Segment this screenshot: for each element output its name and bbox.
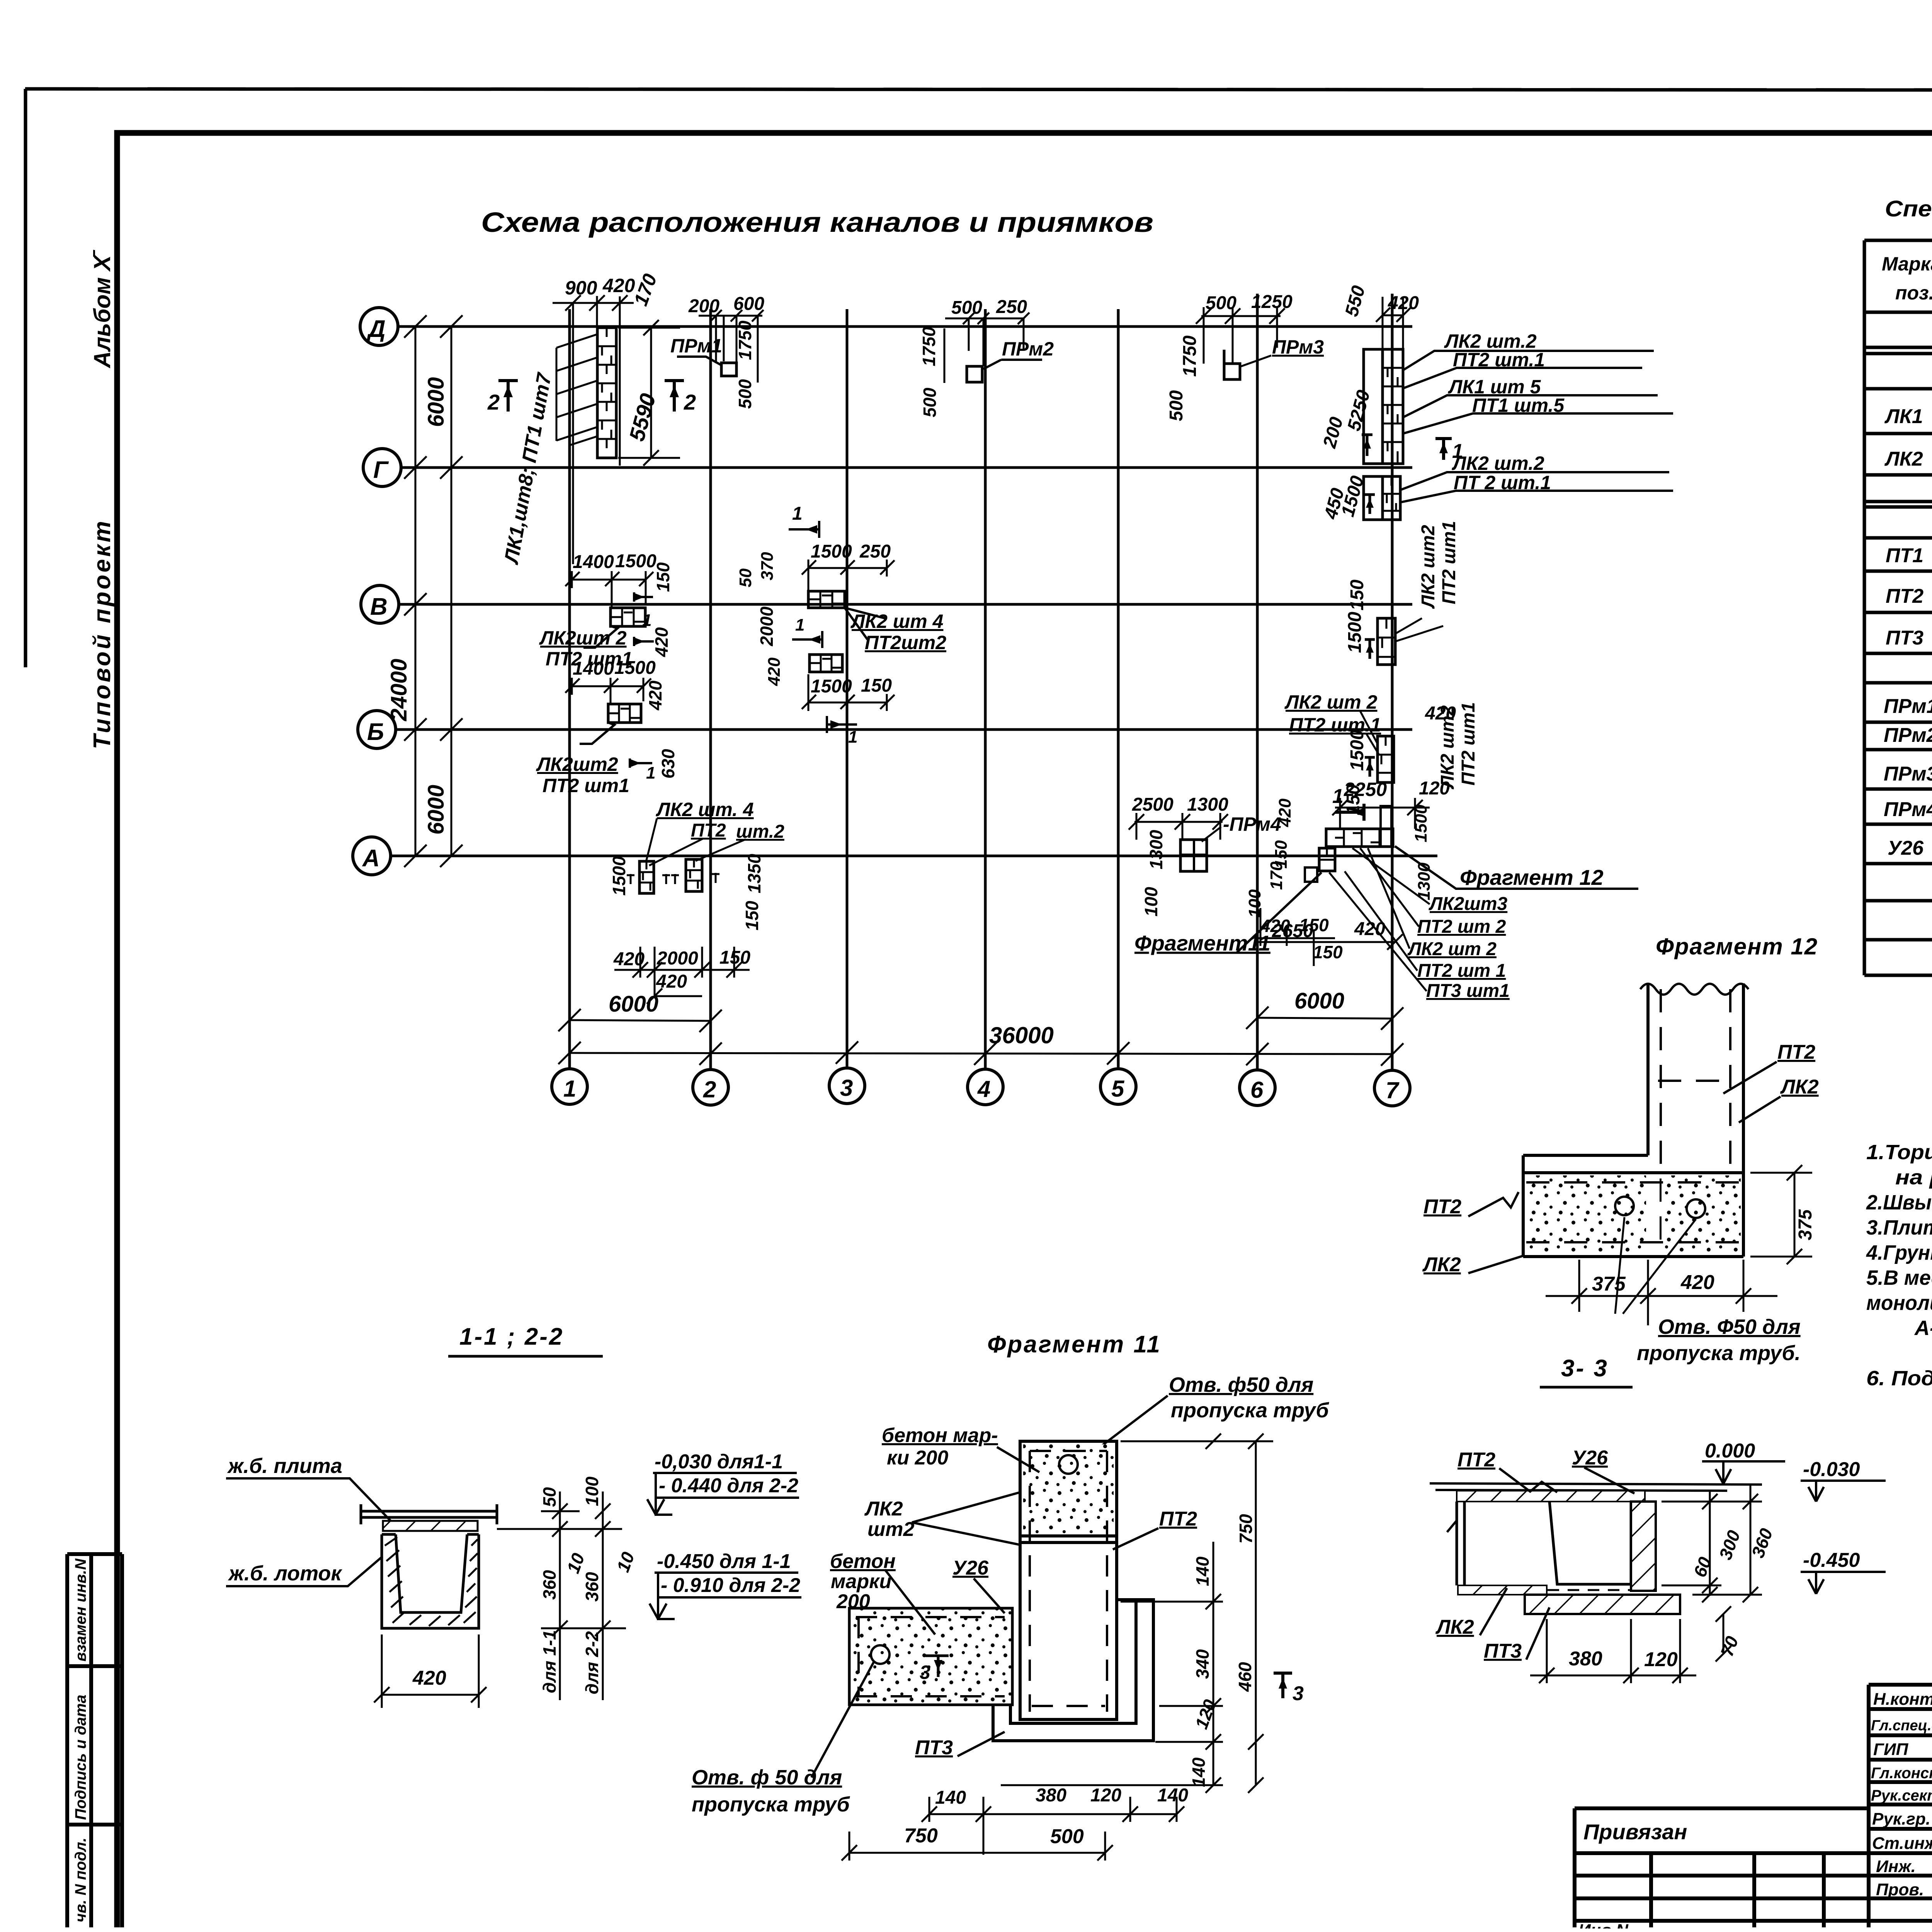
svg-text:1.Торцы лотковых каналов зало: 1.Торцы лотковых каналов заложить кирпич… bbox=[1866, 1141, 1932, 1164]
svg-text:ЛК2: ЛК2 bbox=[1435, 1616, 1474, 1638]
svg-text:420: 420 bbox=[602, 275, 635, 296]
dim 5590 bbox=[618, 320, 680, 466]
svg-text:Подпись и дата: Подпись и дата bbox=[72, 1695, 89, 1820]
svg-text:У26: У26 bbox=[1572, 1447, 1608, 1469]
svg-text:380: 380 bbox=[1036, 1785, 1066, 1806]
svg-text:ПТ2 шт 2: ПТ2 шт 2 bbox=[1417, 917, 1506, 937]
svg-text:340: 340 bbox=[1192, 1649, 1213, 1679]
svg-text:36000: 36000 bbox=[989, 1022, 1054, 1048]
svg-text:500: 500 bbox=[951, 298, 982, 318]
right dims bbox=[1001, 1434, 1273, 1793]
svg-text:150: 150 bbox=[653, 562, 673, 592]
svg-text:-0.030: -0.030 bbox=[1803, 1458, 1860, 1481]
svg-text:100: 100 bbox=[1141, 887, 1161, 917]
slab bar bbox=[361, 1504, 497, 1524]
spec rows bbox=[1884, 363, 1932, 973]
svg-text:ПТ2 шт 1: ПТ2 шт 1 bbox=[1417, 961, 1506, 981]
svg-text:- 0.910 для 2-2: - 0.910 для 2-2 bbox=[661, 1574, 800, 1597]
holes bbox=[1615, 1197, 1634, 1215]
svg-text:бетон мар-: бетон мар- bbox=[882, 1424, 998, 1447]
column walls bbox=[1648, 983, 1743, 1257]
outer border top bbox=[25, 89, 1932, 90]
svg-text:140: 140 bbox=[1192, 1556, 1213, 1586]
svg-text:1: 1 bbox=[1332, 785, 1344, 808]
bottom dim 6000 bay 6-7 bbox=[1246, 1007, 1403, 1030]
svg-text:Марка: Марка bbox=[1882, 253, 1932, 275]
svg-text:1400: 1400 bbox=[573, 552, 614, 572]
svg-text:2500: 2500 bbox=[1132, 794, 1173, 815]
PRm1 detail bbox=[670, 294, 764, 409]
left dim line 24000 bbox=[404, 315, 427, 867]
svg-text:120: 120 bbox=[1191, 1697, 1220, 1731]
svg-text:150: 150 bbox=[861, 675, 892, 696]
svg-text:1: 1 bbox=[792, 503, 803, 524]
svg-text:1400: 1400 bbox=[573, 658, 614, 679]
svg-text:ПРм4: ПРм4 bbox=[1884, 798, 1932, 821]
svg-text:Фрагмент 12: Фрагмент 12 bbox=[1656, 934, 1818, 959]
svg-text:250: 250 bbox=[859, 541, 891, 562]
svg-text:для 2-2: для 2-2 bbox=[582, 1631, 602, 1694]
column line 4 bbox=[984, 309, 987, 1068]
svg-text:Инж.: Инж. bbox=[1876, 1857, 1916, 1876]
svg-text:120: 120 bbox=[1419, 778, 1450, 799]
svg-text:500: 500 bbox=[1206, 293, 1236, 313]
dim 375 right bbox=[1750, 1165, 1812, 1264]
column circle 3 bbox=[829, 1068, 865, 1104]
dims right bbox=[1662, 1485, 1762, 1662]
svg-text:1: 1 bbox=[563, 1076, 576, 1102]
svg-text:ПТ2шт2: ПТ2шт2 bbox=[865, 632, 946, 653]
svg-text:ПТ2: ПТ2 bbox=[1886, 585, 1923, 607]
svg-text:2650: 2650 bbox=[1272, 921, 1313, 941]
svg-text:1500: 1500 bbox=[811, 541, 852, 562]
svg-text:500: 500 bbox=[1050, 1825, 1084, 1848]
svg-text:-0.450: -0.450 bbox=[1803, 1549, 1860, 1571]
svg-text:1-1 ; 2-2: 1-1 ; 2-2 bbox=[459, 1323, 564, 1350]
column line 3 bbox=[846, 309, 849, 1066]
column line 2 bbox=[709, 309, 712, 1069]
svg-text:6000: 6000 bbox=[609, 992, 658, 1017]
row A col2 cluster bbox=[609, 799, 784, 1004]
svg-text:ПТ2: ПТ2 bbox=[1458, 1449, 1495, 1471]
left dim line 6000 top bbox=[440, 315, 463, 867]
svg-text:ПТ2 шт1: ПТ2 шт1 bbox=[1458, 702, 1479, 786]
svg-text:ПТ2: ПТ2 bbox=[1423, 1196, 1461, 1218]
svg-text:1300: 1300 bbox=[1187, 794, 1228, 815]
svg-text:Типовой проект: Типовой проект bbox=[89, 519, 116, 749]
svg-text:6000: 6000 bbox=[1294, 988, 1344, 1014]
svg-text:1750: 1750 bbox=[1180, 335, 1200, 377]
svg-text:4.Грунты в основании каналов: 4.Грунты в основании каналов и приямков … bbox=[1866, 1241, 1932, 1264]
row circle A bbox=[353, 837, 391, 875]
svg-text:ПТ3: ПТ3 bbox=[1484, 1640, 1522, 1662]
left stamp column bbox=[67, 1554, 122, 1927]
svg-text:ЛК2 шт2: ЛК2 шт2 bbox=[1418, 525, 1439, 609]
svg-text:600: 600 bbox=[733, 294, 764, 314]
svg-text:420: 420 bbox=[613, 949, 645, 969]
section mark 2 right bbox=[665, 381, 696, 414]
svg-text:ЛК2 шт 2: ЛК2 шт 2 bbox=[1407, 939, 1497, 959]
svg-text:100: 100 bbox=[1245, 889, 1264, 918]
svg-text:300: 300 bbox=[1715, 1527, 1744, 1562]
svg-text:ЛК2: ЛК2 bbox=[1422, 1253, 1461, 1276]
row line D bbox=[398, 325, 1412, 328]
svg-text:ПТ2 шт1: ПТ2 шт1 bbox=[543, 775, 629, 796]
svg-text:-0.450 для 1-1: -0.450 для 1-1 bbox=[657, 1550, 791, 1573]
svg-text:2000: 2000 bbox=[656, 948, 698, 969]
svg-text:2000: 2000 bbox=[757, 606, 777, 646]
row B col2 channel cluster bbox=[536, 658, 678, 796]
svg-text:420: 420 bbox=[1425, 703, 1456, 724]
svg-text:5250: 5250 bbox=[1344, 388, 1374, 433]
svg-text:360: 360 bbox=[539, 1570, 560, 1600]
svg-text:200: 200 bbox=[688, 296, 719, 316]
svg-text:6. Под каналы выполнить пес: 6. Под каналы выполнить песчаную подгото… bbox=[1866, 1367, 1932, 1390]
svg-text:460: 460 bbox=[1235, 1662, 1255, 1692]
svg-text:пропуска труб: пропуска труб bbox=[692, 1793, 850, 1816]
svg-text:Н.контр.: Н.контр. bbox=[1873, 1690, 1932, 1709]
elevation mark bottom bbox=[650, 1550, 801, 1619]
svg-text:5590: 5590 bbox=[624, 391, 660, 444]
column circle 4 bbox=[968, 1069, 1003, 1105]
svg-text:3: 3 bbox=[920, 1662, 930, 1683]
svg-text:120: 120 bbox=[1644, 1648, 1678, 1671]
svg-text:360: 360 bbox=[1748, 1526, 1777, 1560]
tick mark left bbox=[1447, 1520, 1457, 1532]
svg-text:420: 420 bbox=[1388, 293, 1419, 313]
spec header texts bbox=[1882, 253, 1932, 304]
scan cut mask bottom bbox=[0, 1929, 1932, 1932]
section mark 1 top bbox=[1332, 785, 1364, 821]
svg-text:ПРм1: ПРм1 bbox=[1884, 695, 1932, 718]
svg-text:ГИП: ГИП bbox=[1873, 1740, 1909, 1759]
svg-text:1750: 1750 bbox=[919, 327, 939, 366]
svg-text:Г: Г bbox=[373, 457, 389, 483]
svg-text:380: 380 bbox=[1569, 1648, 1602, 1670]
svg-text:Гл.конст.: Гл.конст. bbox=[1871, 1765, 1932, 1782]
svg-text:150: 150 bbox=[1313, 942, 1343, 962]
PT3 plate bbox=[1525, 1595, 1680, 1614]
bottom strip bbox=[1458, 1585, 1547, 1595]
svg-text:140: 140 bbox=[1157, 1785, 1188, 1806]
svg-text:ЛК2: ЛК2 bbox=[864, 1498, 903, 1520]
svg-text:пропуска труб: пропуска труб bbox=[1171, 1399, 1329, 1422]
privyazan box bbox=[1575, 1808, 1869, 1927]
svg-text:-ПРм4: -ПРм4 bbox=[1223, 813, 1281, 835]
svg-text:2.Швы лотковых каналов выполн: 2.Швы лотковых каналов выполнить согласн… bbox=[1866, 1191, 1932, 1214]
svg-text:ПТ3 шт1: ПТ3 шт1 bbox=[1426, 981, 1510, 1001]
svg-text:420: 420 bbox=[765, 657, 784, 686]
dim 420 bottom bbox=[374, 1634, 486, 1708]
svg-text:ЛК2 шт.2: ЛК2 шт.2 bbox=[1452, 452, 1544, 474]
svg-text:Рук.гр.: Рук.гр. bbox=[1872, 1810, 1930, 1828]
svg-text:Фрагмент11: Фрагмент11 bbox=[1134, 931, 1270, 955]
svg-text:Отв. ф50 для: Отв. ф50 для bbox=[1169, 1373, 1313, 1396]
channel LK1 col2 top bbox=[597, 328, 616, 458]
svg-text:420: 420 bbox=[1276, 798, 1294, 827]
svg-text:2250: 2250 bbox=[1344, 779, 1387, 800]
svg-text:1500: 1500 bbox=[1345, 612, 1365, 653]
svg-text:420: 420 bbox=[656, 971, 687, 992]
svg-text:750: 750 bbox=[904, 1825, 938, 1847]
svg-text:ЛК2шт3: ЛК2шт3 bbox=[1429, 894, 1508, 914]
svg-text:ПТ3: ПТ3 bbox=[1886, 627, 1923, 649]
svg-text:2: 2 bbox=[703, 1077, 716, 1102]
svg-text:ж.б. лоток: ж.б. лоток bbox=[228, 1562, 342, 1585]
svg-text:ПРм1: ПРм1 bbox=[670, 335, 722, 357]
svg-text:150: 150 bbox=[719, 947, 750, 968]
svg-text:Фрагмент 11: Фрагмент 11 bbox=[987, 1331, 1162, 1358]
svg-text:Пров.: Пров. bbox=[1876, 1880, 1924, 1899]
svg-text:Альбом Х̄: Альбом Х̄ bbox=[89, 250, 115, 369]
svg-text:420: 420 bbox=[645, 680, 665, 711]
dims 900 420 above LK1 bbox=[553, 295, 634, 564]
svg-text:ЛК2шт2: ЛК2шт2 bbox=[536, 753, 618, 775]
column circle 7 bbox=[1374, 1070, 1410, 1106]
signature rows text bbox=[1871, 1689, 1932, 1899]
svg-text:шт2: шт2 bbox=[867, 1518, 914, 1541]
section mark 2 left bbox=[487, 381, 518, 414]
column line 6 bbox=[1256, 294, 1259, 1070]
row V col2 channel cluster bbox=[539, 551, 673, 670]
outer border left bbox=[24, 89, 27, 667]
svg-text:500: 500 bbox=[735, 379, 755, 409]
slab hatched bbox=[383, 1521, 478, 1531]
svg-text:ПТ2: ПТ2 bbox=[1777, 1041, 1815, 1063]
svg-text:420: 420 bbox=[651, 627, 672, 657]
svg-text:на растворе марки 5,0 толщино: на растворе марки 5,0 толщиной 120мм. bbox=[1895, 1166, 1932, 1189]
svg-text:ПТ3: ПТ3 bbox=[915, 1736, 953, 1759]
svg-text:Ст.инж.: Ст.инж. bbox=[1872, 1834, 1932, 1853]
svg-text:120: 120 bbox=[1090, 1785, 1121, 1806]
column line 1 bbox=[568, 309, 571, 1069]
svg-text:3- 3: 3- 3 bbox=[1561, 1355, 1609, 1382]
dims below bbox=[1530, 1619, 1696, 1683]
svg-text:70: 70 bbox=[1717, 1633, 1743, 1659]
svg-text:ПТ2 шт1: ПТ2 шт1 bbox=[1439, 521, 1459, 604]
svg-text:пропуска труб.: пропуска труб. bbox=[1637, 1342, 1801, 1365]
svg-text:2: 2 bbox=[487, 390, 500, 414]
svg-text:- 0.440 для 2-2: - 0.440 для 2-2 bbox=[659, 1475, 798, 1497]
row line B bbox=[395, 728, 1412, 731]
bottom dims bbox=[842, 1797, 1184, 1861]
svg-text:1: 1 bbox=[848, 728, 857, 747]
row circle B bbox=[358, 711, 396, 748]
svg-text:1: 1 bbox=[646, 764, 655, 782]
svg-text:Привязан: Привязан bbox=[1583, 1820, 1687, 1844]
hatch strip top bbox=[1457, 1491, 1645, 1502]
svg-text:В: В bbox=[370, 594, 388, 620]
svg-text:ПРм2: ПРм2 bbox=[1002, 338, 1054, 360]
column circle 2 bbox=[693, 1070, 728, 1105]
svg-text:шт.2: шт.2 bbox=[736, 821, 784, 842]
PRm2 detail bbox=[919, 297, 1054, 417]
svg-text:200: 200 bbox=[1319, 415, 1347, 450]
svg-text:Рук.сект: Рук.сект bbox=[1871, 1787, 1932, 1804]
U channel PT3 bbox=[993, 1600, 1153, 1741]
svg-text:Схема расположения канало: Схема расположения каналов и приямков bbox=[481, 207, 1153, 238]
svg-text:50: 50 bbox=[736, 568, 755, 587]
svg-text:900: 900 bbox=[565, 277, 597, 299]
row A col6-7 cluster bbox=[1134, 778, 1638, 1001]
svg-text:3.Плиты перекрытия каналов ук: 3.Плиты перекрытия каналов укладывать на… bbox=[1866, 1216, 1932, 1239]
svg-text:ПРм2: ПРм2 bbox=[1884, 724, 1932, 747]
svg-text:1: 1 bbox=[1452, 440, 1463, 463]
PRm4 detail bbox=[1129, 794, 1281, 917]
svg-text:1500: 1500 bbox=[615, 551, 656, 571]
section mark 1 col7 bbox=[1435, 439, 1463, 463]
row line G bbox=[401, 466, 1412, 469]
svg-text:1500: 1500 bbox=[614, 658, 656, 678]
svg-text:7: 7 bbox=[1386, 1077, 1400, 1103]
column circle 6 bbox=[1240, 1070, 1275, 1105]
svg-text:ПРм3: ПРм3 bbox=[1272, 336, 1324, 358]
svg-text:монолитные участки из бетон: монолитные участки из бетона марки 200, … bbox=[1866, 1291, 1932, 1315]
slab bbox=[1523, 1155, 1743, 1257]
svg-text:1500: 1500 bbox=[609, 856, 629, 896]
vertical column bbox=[1020, 1441, 1117, 1719]
svg-text:1250: 1250 bbox=[1251, 292, 1293, 312]
svg-text:6000: 6000 bbox=[423, 785, 449, 835]
svg-text:750: 750 bbox=[1236, 1514, 1256, 1544]
svg-text:420: 420 bbox=[1680, 1271, 1714, 1294]
svg-text:А-I-6 по ГОСТ 5781-82.: А-I-6 по ГОСТ 5781-82. bbox=[1914, 1316, 1932, 1340]
svg-text:ЛК2 шт 2: ЛК2 шт 2 bbox=[1284, 691, 1378, 713]
svg-text:170: 170 bbox=[1267, 861, 1286, 890]
trough bbox=[382, 1534, 479, 1628]
horizontal channel near A bbox=[1326, 829, 1393, 847]
svg-text:630: 630 bbox=[658, 749, 678, 779]
svg-text:чв. N подл.: чв. N подл. bbox=[72, 1838, 89, 1922]
svg-text:Отв. ф 50 для: Отв. ф 50 для bbox=[692, 1766, 842, 1789]
svg-text:360: 360 bbox=[582, 1572, 602, 1602]
left trough bbox=[849, 1608, 1012, 1705]
svg-text:ЛК2шт 2: ЛК2шт 2 bbox=[539, 627, 627, 649]
svg-text:140: 140 bbox=[1189, 1757, 1209, 1787]
svg-text:Д: Д bbox=[366, 316, 386, 342]
svg-text:поз.: поз. bbox=[1895, 282, 1932, 304]
elevation mark top bbox=[647, 1451, 799, 1515]
spec table grid bbox=[1864, 240, 1932, 975]
section 3 mark right bbox=[1274, 1673, 1304, 1705]
svg-text:Отв. Ф50 для: Отв. Ф50 для bbox=[1658, 1315, 1801, 1338]
svg-text:3: 3 bbox=[840, 1075, 853, 1101]
svg-text:420: 420 bbox=[412, 1667, 446, 1689]
bottom dim line 36000 bbox=[558, 1041, 1403, 1066]
svg-text:1500: 1500 bbox=[811, 676, 852, 697]
svg-text:для 1-1: для 1-1 bbox=[539, 1630, 560, 1693]
svg-text:140: 140 bbox=[935, 1787, 966, 1808]
fragment 12 detail drawing bbox=[1422, 934, 1819, 1365]
bottom dim 6000 bay 1-2 bbox=[558, 1009, 722, 1032]
svg-text:ПТ2: ПТ2 bbox=[1159, 1508, 1197, 1530]
section 3 mark in trough bbox=[920, 1656, 949, 1683]
svg-text:5.В местах выпуска трубопров: 5.В местах выпуска трубопроводов из кана… bbox=[1866, 1266, 1932, 1289]
svg-text:150: 150 bbox=[1347, 580, 1367, 611]
column circle 5 bbox=[1100, 1069, 1136, 1104]
dims below bbox=[1546, 1260, 1777, 1325]
svg-text:4: 4 bbox=[977, 1076, 990, 1102]
svg-text:5: 5 bbox=[1111, 1076, 1125, 1102]
row circle V bbox=[361, 585, 399, 623]
svg-text:6000: 6000 bbox=[423, 377, 449, 427]
row circle G bbox=[363, 449, 401, 486]
svg-text:Б: Б bbox=[367, 719, 384, 745]
svg-text:-0,030 для1-1: -0,030 для1-1 bbox=[655, 1451, 783, 1473]
column line 5 bbox=[1117, 309, 1120, 1067]
svg-text:ПТ2: ПТ2 bbox=[691, 820, 726, 841]
svg-text:10: 10 bbox=[613, 1549, 639, 1575]
svg-text:У26: У26 bbox=[952, 1557, 989, 1579]
svg-text:370: 370 bbox=[758, 552, 777, 580]
top slab lines bbox=[1430, 1483, 1762, 1491]
svg-text:24000: 24000 bbox=[386, 659, 412, 721]
svg-text:Фрагмент 12: Фрагмент 12 bbox=[1460, 865, 1604, 889]
row circle D bbox=[360, 308, 398, 345]
col4 row V channel cluster bbox=[736, 503, 946, 747]
svg-text:ЛК2 шт. 4: ЛК2 шт. 4 bbox=[656, 799, 754, 820]
svg-text:1: 1 bbox=[795, 616, 804, 634]
row line A bbox=[390, 855, 1437, 857]
fragment 12 leader bbox=[1395, 846, 1638, 889]
svg-text:Гл.спец.отд: Гл.спец.отд bbox=[1871, 1718, 1932, 1734]
svg-text:ж.б. плита: ж.б. плита bbox=[227, 1454, 342, 1478]
row line V bbox=[398, 603, 1412, 606]
trough walls bbox=[1457, 1502, 1464, 1585]
svg-text:1500: 1500 bbox=[1412, 804, 1430, 842]
svg-text:1350: 1350 bbox=[744, 854, 764, 893]
svg-text:ЛК1: ЛК1 bbox=[1884, 405, 1923, 428]
svg-text:1300: 1300 bbox=[1146, 830, 1166, 869]
svg-text:У26: У26 bbox=[1888, 837, 1924, 859]
svg-text:ЛК2: ЛК2 bbox=[1884, 448, 1923, 470]
svg-text:150: 150 bbox=[742, 901, 762, 930]
svg-text:ЛК2: ЛК2 bbox=[1780, 1076, 1819, 1098]
stacked labels bbox=[1407, 894, 1510, 1001]
svg-text:550: 550 bbox=[1341, 283, 1369, 318]
svg-text:А: А bbox=[362, 845, 380, 872]
svg-text:3: 3 bbox=[1293, 1682, 1304, 1705]
svg-text:1750: 1750 bbox=[735, 320, 755, 360]
svg-text:375: 375 bbox=[1795, 1209, 1816, 1240]
svg-text:200: 200 bbox=[836, 1590, 870, 1613]
col7 channel upper bbox=[1362, 349, 1403, 782]
dims col7 top bbox=[1376, 297, 1411, 349]
svg-text:Спецификация к схеме расположе: Спецификация к схеме расположения канало… bbox=[1885, 196, 1932, 221]
svg-text:250: 250 bbox=[996, 297, 1027, 317]
svg-text:ПРм3: ПРм3 bbox=[1884, 763, 1932, 785]
dims right 1-1 bbox=[541, 1492, 626, 1700]
svg-text:1: 1 bbox=[642, 611, 651, 630]
svg-text:375: 375 bbox=[1592, 1273, 1626, 1295]
labels col7 right bbox=[1444, 330, 1565, 493]
svg-text:60: 60 bbox=[1690, 1554, 1716, 1580]
column line 7 bbox=[1391, 294, 1394, 1070]
svg-text:500: 500 bbox=[920, 388, 940, 417]
svg-text:6: 6 bbox=[1250, 1077, 1264, 1103]
hatch leader lines LK1 bbox=[556, 334, 597, 445]
svg-text:взамен инв.N: взамен инв.N bbox=[72, 1558, 89, 1662]
svg-text:100: 100 bbox=[582, 1476, 602, 1506]
small section ticks bbox=[627, 873, 719, 884]
svg-text:2: 2 bbox=[684, 390, 696, 414]
svg-text:500: 500 bbox=[1166, 390, 1187, 421]
column circle 1 bbox=[552, 1069, 587, 1104]
svg-text:марки: марки bbox=[831, 1570, 891, 1593]
svg-text:ПТ1: ПТ1 bbox=[1886, 544, 1923, 567]
PRm3 detail bbox=[1166, 292, 1324, 421]
svg-text:ки 200: ки 200 bbox=[887, 1447, 948, 1469]
